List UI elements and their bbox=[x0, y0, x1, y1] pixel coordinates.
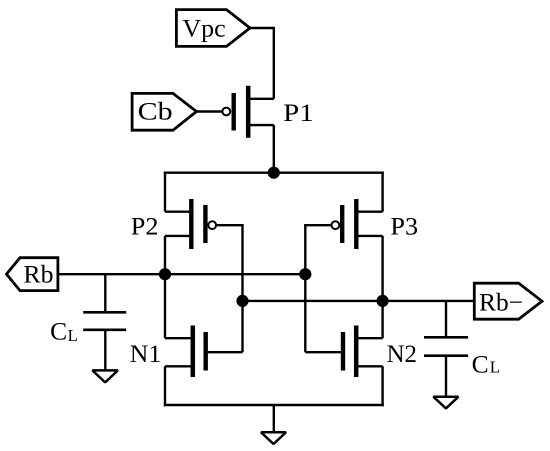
pin Rb- bbox=[474, 283, 542, 319]
ground center bbox=[261, 432, 286, 444]
wire Vpc to P1 source bbox=[250, 28, 274, 99]
wire bottom rail bbox=[164, 404, 384, 406]
capacitor C_L right bbox=[424, 301, 500, 397]
svg-text:L: L bbox=[68, 326, 78, 345]
node Rb- at right column bbox=[377, 295, 389, 307]
wire top rail bbox=[164, 171, 384, 173]
svg-text:P1: P1 bbox=[283, 100, 314, 127]
svg-text:Vpc: Vpc bbox=[182, 15, 225, 42]
pin Vpc bbox=[176, 10, 250, 47]
pin Rb bbox=[7, 258, 58, 291]
ground right capacitor bbox=[433, 397, 458, 409]
capacitor C_L left bbox=[50, 274, 126, 370]
wire Rb- output net bbox=[243, 300, 475, 302]
svg-text:C: C bbox=[472, 351, 489, 378]
wire Cb to P1 gate bubble bbox=[197, 110, 223, 112]
transistor P3 (PMOS) bbox=[332, 199, 419, 249]
wire P1 drain to top rail bbox=[273, 125, 275, 173]
svg-text:P3: P3 bbox=[390, 213, 418, 240]
wire cross-couple vertical left (P2/N1 gates) bbox=[241, 224, 243, 352]
wire ground stem center bbox=[273, 405, 275, 433]
transistor N2 (NMOS) bbox=[305, 326, 417, 378]
ground left capacitor bbox=[92, 370, 118, 382]
wire cross-couple vertical right (P3/N2 gates) bbox=[304, 224, 306, 352]
svg-text:P2: P2 bbox=[131, 213, 159, 240]
wire right column middle (P3 drain to N2 drain) bbox=[381, 236, 383, 338]
wire left column top (rail to P2 source) bbox=[164, 172, 166, 212]
wire P2 gate to cross-couple line bbox=[217, 224, 243, 226]
svg-text:N2: N2 bbox=[387, 341, 417, 368]
wire left column middle (P2 drain to N1 drain) bbox=[164, 236, 166, 338]
transistor P2 (PMOS) bbox=[131, 199, 216, 249]
svg-text:Rb: Rb bbox=[23, 262, 53, 289]
node Rb at left column bbox=[159, 268, 171, 280]
node Rb at P3/N2 gate line bbox=[299, 268, 311, 280]
pin Cb bbox=[132, 93, 196, 130]
svg-text:L: L bbox=[490, 358, 500, 377]
svg-text:C: C bbox=[50, 319, 67, 346]
node Rb- at P2/N1 gate line bbox=[236, 295, 248, 307]
wire P3 gate to cross-couple line bbox=[305, 224, 330, 226]
svg-text:Cb: Cb bbox=[138, 99, 173, 126]
node top rail junction bbox=[268, 167, 280, 179]
wire Rb output net bbox=[58, 273, 305, 275]
svg-text:Rb−: Rb− bbox=[479, 289, 523, 316]
wire right column top (rail to P3 source) bbox=[381, 172, 383, 212]
wire left column bottom (N1 source to bottom rail) bbox=[164, 366, 166, 406]
transistor P1 (PMOS) bbox=[222, 86, 313, 138]
svg-text:N1: N1 bbox=[130, 341, 162, 368]
wire right column bottom (N2 source to bottom rail) bbox=[381, 366, 383, 406]
transistor N1 (NMOS) bbox=[130, 326, 243, 378]
